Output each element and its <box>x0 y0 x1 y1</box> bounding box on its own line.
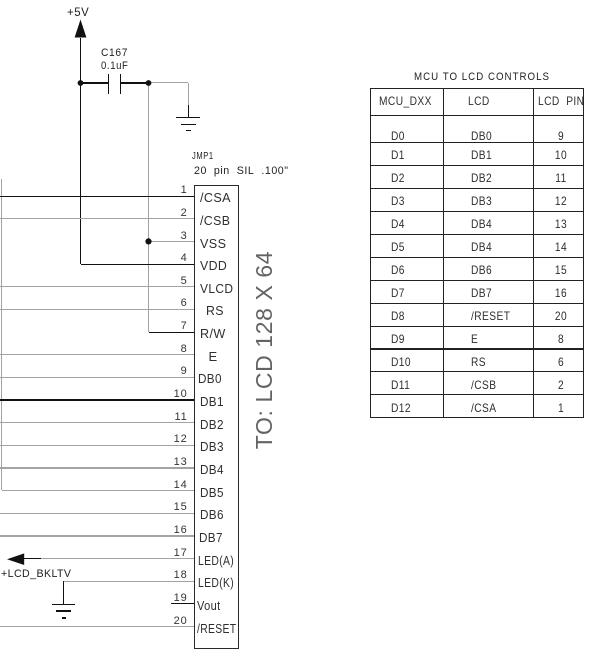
pin number 12 <box>158 433 188 446</box>
wire +5V to C167 left <box>81 82 109 83</box>
table row D5 <box>391 241 405 255</box>
table row line 10 <box>370 326 584 327</box>
wire pin 7 stub <box>149 332 195 333</box>
table title MCU TO LCD CONTROLS <box>414 71 550 84</box>
pin number 8 <box>158 343 188 356</box>
wire pin 2 <box>0 218 194 219</box>
wire pin 9 <box>0 377 194 378</box>
pin label Vout <box>197 599 220 614</box>
pin number 18 <box>158 569 188 582</box>
table row line 8 <box>370 280 584 281</box>
pin number 4 <box>158 252 188 265</box>
table row D8 <box>391 310 405 324</box>
wire pin 6 <box>0 309 194 310</box>
wire pin 8 <box>0 354 194 355</box>
power label +5V <box>67 6 89 20</box>
wire node to ground horizontal <box>149 82 189 83</box>
wire left bus vertical <box>1 179 2 491</box>
wire pin 18 <box>64 581 195 582</box>
wire pin 14 <box>2 490 195 491</box>
connector designator JMP1 <box>192 150 214 162</box>
table row D1 <box>391 149 405 163</box>
pin number 1 <box>158 184 188 197</box>
pin number 7 <box>158 320 188 333</box>
table header LCD <box>468 95 490 109</box>
pin label DB2 <box>200 418 224 433</box>
pin label E <box>209 350 218 365</box>
table row D4 <box>391 218 405 232</box>
table row D2 <box>391 172 405 186</box>
table frame <box>370 88 584 418</box>
pin label DB5 <box>200 486 224 501</box>
table row D12 <box>391 402 411 416</box>
table row D11 <box>391 379 410 393</box>
wire pin 1 <box>0 196 194 197</box>
pin number 9 <box>158 365 188 378</box>
wire C167 right to node <box>121 82 149 83</box>
capacitor C167 <box>108 74 109 95</box>
table row D10 <box>391 356 411 370</box>
wire pin 11 <box>0 422 194 423</box>
label TO: LCD 128 X 64 <box>250 251 276 449</box>
pin number 20 <box>158 615 188 628</box>
ground near C167 <box>176 117 201 118</box>
wire pin 13 <box>0 467 194 468</box>
table row line 13 <box>370 394 584 395</box>
net label +LCD_BKLTV <box>1 568 71 581</box>
table header LCD PIN <box>538 95 584 109</box>
pin number 16 <box>158 524 188 537</box>
pin number 15 <box>158 501 188 514</box>
pin label LED(A) <box>198 554 234 569</box>
table column line 1 <box>443 88 444 418</box>
pin number 5 <box>158 275 188 288</box>
wire ground stub black <box>188 105 189 117</box>
pin label RS <box>206 304 224 319</box>
table column line 2 <box>533 88 534 418</box>
table row line 7 <box>370 257 584 258</box>
wire pin 5 <box>0 286 194 287</box>
wire VSS vertical <box>148 83 149 332</box>
pin number 14 <box>158 479 188 492</box>
wire pin 20 <box>0 626 194 627</box>
pin label DB7 <box>199 531 223 546</box>
wire pin 15 <box>0 513 194 514</box>
pin label DB4 <box>200 463 224 478</box>
pin label VDD <box>200 259 227 274</box>
pin number 11 <box>158 411 188 424</box>
ground below LED(K) <box>52 604 75 605</box>
pin number 19 <box>158 592 188 605</box>
pin number 2 <box>158 207 188 220</box>
table row line 1 <box>370 115 584 116</box>
table row D0 <box>391 130 405 144</box>
wire pin 17 arrow stub <box>24 558 41 559</box>
table row line 11 <box>370 348 584 349</box>
wire pin 12 <box>0 445 194 446</box>
pin number 13 <box>158 456 188 469</box>
pin label R/W <box>200 327 226 342</box>
table row D9 <box>391 333 405 347</box>
connector description <box>194 165 289 178</box>
wire pin 3 stub <box>149 241 195 242</box>
table row line 5 <box>370 211 584 212</box>
pin label /RESET <box>197 622 236 637</box>
table row D6 <box>391 264 405 278</box>
pin number 10 <box>158 388 188 401</box>
pin label DB1 <box>200 395 224 410</box>
wire pin18 to ground vertical <box>63 581 64 604</box>
pin label /CSA <box>200 191 231 206</box>
wire +5V vertical <box>80 38 81 265</box>
table row line 9 <box>370 303 584 304</box>
table header MCU_DXX <box>379 95 432 109</box>
pin label /CSB <box>200 214 230 229</box>
wire down to ground gray <box>188 83 189 105</box>
connector JMP1 body <box>194 185 239 650</box>
pin number 17 <box>158 547 188 560</box>
pin number 6 <box>158 297 188 310</box>
table row line 4 <box>370 188 584 189</box>
wire pin 16 <box>0 535 194 536</box>
table row line 2 <box>370 142 584 143</box>
pin label DB0 <box>198 372 222 387</box>
pin number 3 <box>158 230 188 243</box>
table row D7 <box>391 287 405 301</box>
table row line 3 <box>370 165 584 166</box>
pin label LED(K) <box>198 576 234 591</box>
pin label DB3 <box>200 440 224 455</box>
wire VDD horizontal <box>81 264 195 265</box>
wire pin 10 <box>0 399 194 400</box>
capacitor label C167 <box>101 47 128 60</box>
table row D3 <box>391 195 405 209</box>
wire pin 19 stub <box>171 603 194 604</box>
pin label VSS <box>200 237 226 252</box>
table row line 6 <box>370 234 584 235</box>
table row line 12 <box>370 371 584 372</box>
capacitor value 0.1uF <box>101 60 129 73</box>
pin label VLCD <box>200 282 233 297</box>
wire pin 17 <box>24 558 194 559</box>
pin label DB6 <box>200 508 224 523</box>
